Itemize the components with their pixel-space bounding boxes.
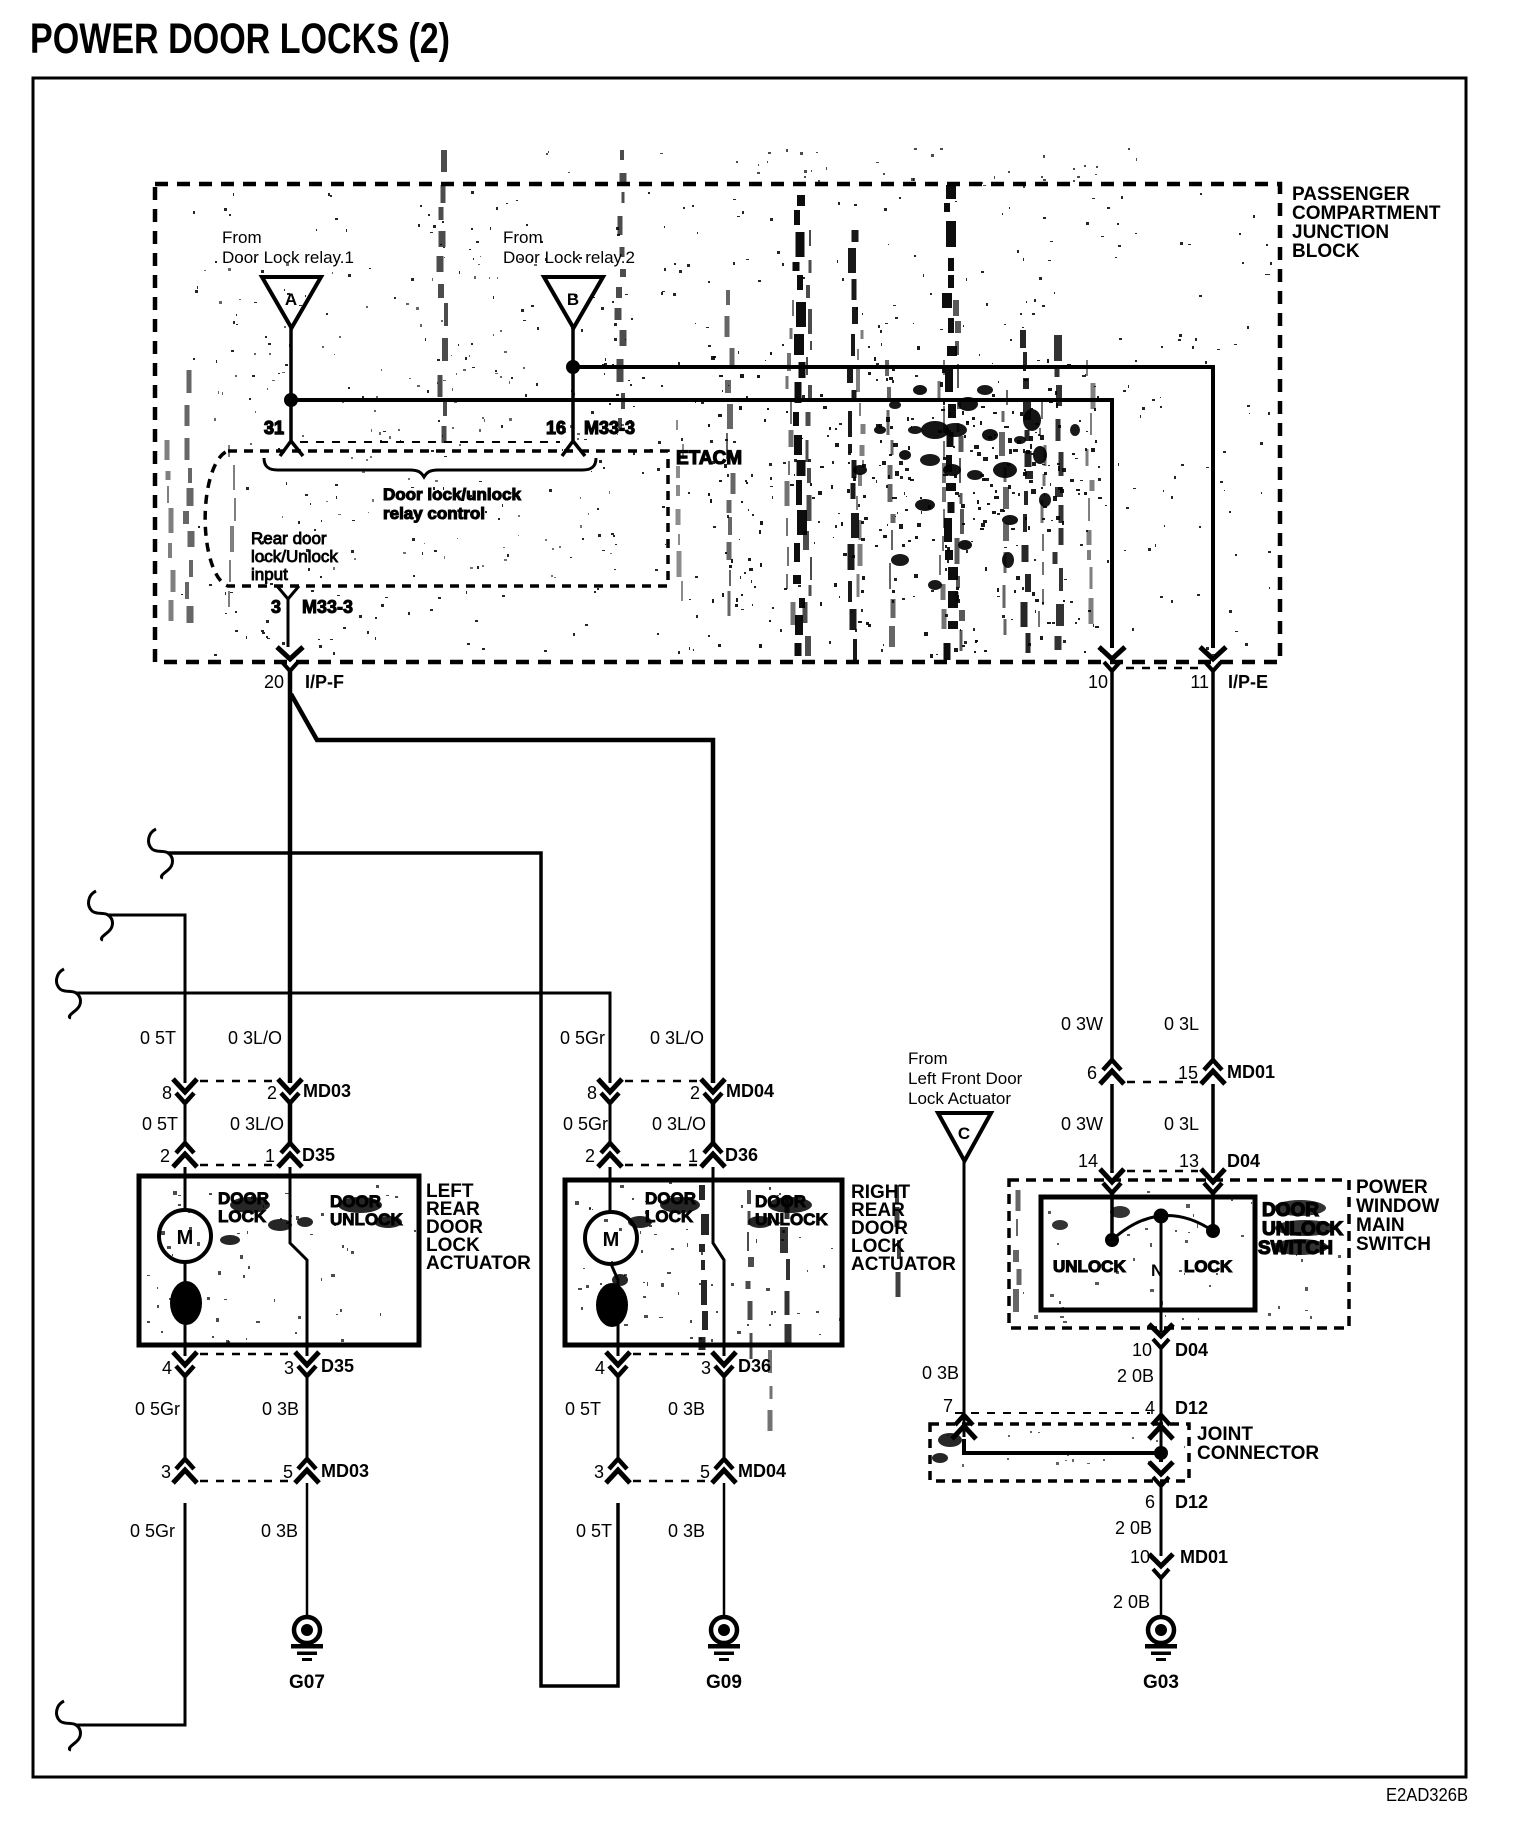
switch arm arc: [1112, 1215, 1213, 1240]
svg-text:MAIN: MAIN: [1356, 1215, 1405, 1236]
wire D35 pin4 to MD03 pin3: [184, 1376, 187, 1459]
wire D36 pin2 into motor: [609, 1167, 612, 1212]
chevron connector MD03 pin 2: [267, 1079, 351, 1103]
svg-text:2: 2: [267, 1083, 277, 1103]
svg-text:LOCK: LOCK: [1184, 1257, 1233, 1276]
ground G09: [706, 1617, 742, 1693]
svg-text:3: 3: [271, 597, 281, 617]
svg-text:ACTUATOR: ACTUATOR: [851, 1254, 956, 1275]
svg-text:10: 10: [1130, 1547, 1150, 1567]
svg-text:0 3L: 0 3L: [1164, 1114, 1199, 1134]
svg-text:From: From: [503, 228, 543, 247]
svg-text:BLOCK: BLOCK: [1292, 241, 1360, 262]
label POWER WINDOW MAIN SWITCH: [1356, 1177, 1439, 1255]
svg-text:Door lock/unlock: Door lock/unlock: [383, 485, 521, 504]
dashed tie MD03 top row: [200, 1080, 275, 1083]
junction dot on wire A: [284, 393, 298, 407]
svg-text:4: 4: [162, 1358, 172, 1378]
wire MD04 pin5 to ground G09: [723, 1483, 726, 1617]
wire label 0 3B left lower: [262, 1399, 299, 1419]
svg-text:6: 6: [1087, 1063, 1097, 1083]
svg-text:MD01: MD01: [1227, 1062, 1275, 1082]
connector triangle B: [544, 277, 603, 328]
svg-text:15: 15: [1178, 1063, 1198, 1083]
label DOOR LOCK inside left actuator: [218, 1189, 269, 1226]
wire D36 pin4 to MD04 pin3: [617, 1376, 620, 1459]
svg-text:0 3B: 0 3B: [668, 1521, 705, 1541]
svg-text:C: C: [958, 1124, 970, 1143]
wire D04 pin10 to D12 pin4: [1160, 1348, 1163, 1448]
wire I/P-E pin11 down to MD01 pin 15: [1211, 671, 1215, 1060]
svg-text:3: 3: [594, 1462, 604, 1482]
svg-text:2: 2: [690, 1083, 700, 1103]
chevron connector D04 pin 10: [1132, 1324, 1208, 1360]
label From Door Lock relay.1: [222, 228, 354, 267]
svg-text:0 3B: 0 3B: [261, 1521, 298, 1541]
junction dot on wire B: [566, 360, 580, 374]
svg-text:0 3W: 0 3W: [1061, 1014, 1103, 1034]
wire label 0 3L/O right top: [650, 1028, 704, 1048]
svg-text:I/P-F: I/P-F: [305, 672, 344, 692]
wire D35 pin2 into motor: [184, 1167, 187, 1210]
solenoid blob left actuator: [170, 1281, 202, 1325]
label DOOR UNLOCK inside left actuator: [330, 1192, 403, 1229]
switch pivot dot: [1154, 1209, 1169, 1224]
wire from B junction to I/P-E pin 11: [573, 367, 1213, 648]
svg-text:8: 8: [162, 1083, 172, 1103]
svg-text:MD03: MD03: [321, 1461, 369, 1481]
wire D36 pin3 to MD04 pin5: [723, 1376, 726, 1459]
wire D04 pin14 into switch: [1110, 1193, 1114, 1238]
svg-text:lock/Unlock: lock/Unlock: [251, 547, 338, 566]
chevron connector MD04 pin 8: [587, 1079, 622, 1103]
wire label 0 3L/O left mid: [230, 1114, 284, 1134]
fork connector out of ETACM pin 3 M33-3: [271, 586, 353, 647]
scan noise speckle layer: [147, 148, 1341, 1467]
svg-text:B: B: [567, 290, 579, 309]
wire label 0 3L/O left top: [228, 1028, 282, 1048]
dashed tie D35 top row: [200, 1164, 275, 1167]
wire label 0 3L mid: [1164, 1114, 1199, 1134]
chevron connector 11 I/P-E at block border: [1190, 647, 1268, 692]
svg-text:D36: D36: [725, 1145, 758, 1165]
svg-text:31: 31: [264, 418, 284, 438]
svg-text:I/P-E: I/P-E: [1228, 672, 1268, 692]
label From Door Lock relay.2: [503, 228, 635, 267]
squiggle continuation S1: [149, 829, 173, 878]
label Door lock/unlock relay control: [383, 485, 521, 523]
junction block PASSENGER COMPARTMENT dashed box: [155, 184, 1280, 662]
svg-text:COMPARTMENT: COMPARTMENT: [1292, 203, 1441, 224]
svg-text:20: 20: [264, 672, 284, 692]
chevron connector MD01 pin 15: [1178, 1060, 1275, 1084]
label RIGHT REAR DOOR LOCK ACTUATOR: [851, 1182, 956, 1275]
svg-text:M33-3: M33-3: [302, 597, 353, 617]
chevron connector D04 pin 14: [1078, 1151, 1124, 1193]
chevron connector D35 pin 1: [265, 1143, 335, 1167]
switch contact dot unlock: [1105, 1233, 1119, 1247]
wire MD01 pin10 to ground G03: [1160, 1578, 1163, 1617]
svg-text:SWITCH: SWITCH: [1356, 1234, 1431, 1255]
wire MD03 pin8 to D35 pin2: [184, 1103, 187, 1143]
wire MD01 pin15 to D04 pin13: [1211, 1084, 1215, 1173]
connector triangle C: [938, 1113, 991, 1161]
svg-text:11: 11: [1190, 672, 1209, 692]
wire from S1 to MD04 pin 3 via bottom U-turn: [168, 853, 618, 1686]
svg-text:D12: D12: [1175, 1492, 1208, 1512]
wire MD04 pin8 to D36 pin2: [609, 1103, 612, 1143]
wire D36 pin1 through actuator to pin3: [713, 1167, 724, 1356]
wire motor to D35 pin4: [184, 1262, 187, 1356]
chevron connector MD03 pin 8: [162, 1079, 197, 1103]
svg-text:0 3L/O: 0 3L/O: [228, 1028, 282, 1048]
dashed tie MD04 top row: [625, 1080, 698, 1083]
left rear door lock actuator box: [139, 1176, 419, 1345]
wire label 0 5Gr right mid: [563, 1114, 608, 1134]
brace door lock relay control: [264, 458, 596, 477]
wire branch diagonal I/P-F to MD04 pin 2: [291, 694, 713, 1083]
wire from S3 to MD04 pin 8: [76, 993, 610, 1083]
svg-text:3: 3: [284, 1358, 294, 1378]
fork connector ETACM pin 16 M33-3: [546, 418, 635, 456]
chevron connector MD04 pin 3: [594, 1459, 630, 1483]
dashed tie D04 row: [1127, 1170, 1198, 1173]
door unlock switch solid box: [1041, 1197, 1255, 1310]
svg-text:3: 3: [701, 1358, 711, 1378]
svg-text:From: From: [222, 228, 262, 247]
wire D04 pin13 into switch: [1211, 1193, 1215, 1230]
wire MD03 pin2 to D35 pin1: [288, 1103, 293, 1143]
wire label 2 0B mid: [1115, 1518, 1152, 1538]
chevron connector MD01 pin 6: [1087, 1060, 1124, 1084]
wire MD03 pin5 to ground G07: [306, 1483, 309, 1617]
chevron connector D04 pin 13: [1179, 1151, 1260, 1193]
wire label 0 5T bottom right: [576, 1521, 612, 1541]
wire label 0 3B bottom: [261, 1521, 298, 1541]
svg-text:2 0B: 2 0B: [1115, 1518, 1152, 1538]
chevron connector joint pin 4 D12: [1149, 1415, 1173, 1439]
ground G03: [1143, 1617, 1179, 1693]
wire label 0 3L/O right mid: [652, 1114, 706, 1134]
svg-text:D35: D35: [302, 1145, 335, 1165]
label 4 D12: [1145, 1398, 1208, 1418]
svg-text:A: A: [285, 290, 297, 309]
svg-text:UNLOCK: UNLOCK: [1053, 1257, 1126, 1276]
label DOOR UNLOCK SWITCH: [1258, 1200, 1344, 1259]
svg-text:Lock Actuator: Lock Actuator: [908, 1089, 1011, 1108]
label From Left Front Door Lock Actuator: [908, 1049, 1023, 1108]
svg-text:8: 8: [587, 1083, 597, 1103]
wire label 0 5T right lower: [565, 1399, 601, 1419]
chevron connector D36 pin 1: [688, 1143, 758, 1167]
svg-text:0 5Gr: 0 5Gr: [130, 1521, 175, 1541]
wire MD01 pin6 to D04 pin14: [1110, 1084, 1114, 1173]
svg-text:0 3B: 0 3B: [668, 1399, 705, 1419]
switch common wire down: [1160, 1216, 1163, 1332]
wire from C down to joint connector pin 7: [963, 1161, 966, 1437]
svg-text:6: 6: [1145, 1492, 1155, 1512]
svg-text:G03: G03: [1143, 1672, 1179, 1693]
label DOOR LOCK inside right actuator: [645, 1189, 696, 1226]
wire MD04 pin2 to D36 pin1: [711, 1103, 716, 1143]
label PASSENGER COMPARTMENT JUNCTION BLOCK: [1292, 184, 1441, 262]
power window main switch dashed box: [1009, 1180, 1349, 1328]
svg-text:0 3L/O: 0 3L/O: [652, 1114, 706, 1134]
svg-text:D04: D04: [1175, 1340, 1208, 1360]
svg-text:0 3L/O: 0 3L/O: [650, 1028, 704, 1048]
wire D35 pin3 to MD03 pin5: [306, 1376, 309, 1459]
svg-text:2 0B: 2 0B: [1113, 1592, 1150, 1612]
label JOINT CONNECTOR: [1197, 1424, 1319, 1464]
dashed tie MD01 row: [1127, 1081, 1198, 1084]
wire label 0 5Gr bottom: [130, 1521, 175, 1541]
wire I/P-F vertical down to MD03 pin 2: [288, 671, 293, 1083]
svg-text:M33-3: M33-3: [584, 418, 635, 438]
wire from S2 to MD03 pin 8: [108, 915, 185, 1083]
svg-text:M: M: [177, 1227, 194, 1249]
svg-text:7: 7: [943, 1396, 953, 1416]
svg-text:M: M: [603, 1229, 620, 1251]
svg-text:N: N: [1151, 1261, 1163, 1280]
svg-text:MD04: MD04: [738, 1461, 786, 1481]
dashed tie D36 bottom row: [633, 1353, 709, 1356]
label 7 joint connector: [943, 1396, 953, 1416]
ground G07: [289, 1617, 325, 1693]
svg-text:PASSENGER: PASSENGER: [1292, 184, 1410, 205]
fork connector ETACM pin 31: [264, 418, 303, 456]
svg-text:0 5T: 0 5T: [142, 1114, 178, 1134]
wire label 0 3W mid: [1061, 1114, 1103, 1134]
svg-text:0 3L/O: 0 3L/O: [230, 1114, 284, 1134]
squiggle continuation S3: [57, 969, 81, 1018]
chevron connector MD03 pin 3: [161, 1459, 197, 1483]
wire I/P-E pin10 down to MD01 pin 6: [1110, 671, 1114, 1060]
svg-text:14: 14: [1078, 1151, 1098, 1171]
svg-text:ETACM: ETACM: [676, 448, 742, 469]
dashed tie between 10 and 11 connectors: [1126, 667, 1198, 670]
svg-text:MD01: MD01: [1180, 1547, 1228, 1567]
svg-text:JOINT: JOINT: [1197, 1424, 1253, 1445]
svg-text:0 3B: 0 3B: [922, 1363, 959, 1383]
wire motor to D36 pin4: [611, 1264, 618, 1356]
svg-text:input: input: [251, 565, 288, 584]
svg-text:1: 1: [688, 1146, 698, 1166]
svg-text:G07: G07: [289, 1672, 325, 1693]
svg-text:0 5T: 0 5T: [565, 1399, 601, 1419]
chevron connector MD04 pin 5: [700, 1459, 786, 1483]
joint connector extra dashed top line: [955, 1412, 1150, 1414]
label Rear door lock/Unlock input: [251, 529, 338, 584]
svg-text:ACTUATOR: ACTUATOR: [426, 1253, 531, 1274]
wire label 0 3B from C: [922, 1363, 959, 1383]
wire from A junction to I/P-E pin 10: [291, 400, 1112, 648]
svg-text:POWER: POWER: [1356, 1177, 1428, 1198]
chevron connector D36 pin 2: [585, 1143, 622, 1167]
motor M right actuator: [585, 1212, 637, 1264]
label E2AD326B: [1386, 1785, 1468, 1805]
label LEFT REAR DOOR LOCK ACTUATOR: [426, 1181, 531, 1274]
chevron connector D35 pin 2: [160, 1143, 197, 1167]
ETACM dashed box with rounded left cap: [205, 451, 668, 586]
svg-text:10: 10: [1088, 672, 1108, 692]
wire label 0 3W top: [1061, 1014, 1103, 1034]
dashed tie MD03 bottom row: [200, 1480, 292, 1483]
wire label 0 5Gr left lower: [135, 1399, 180, 1419]
svg-text:13: 13: [1179, 1151, 1199, 1171]
chevron connector joint exit 6 D12: [1145, 1462, 1208, 1512]
label N inside switch: [1151, 1261, 1163, 1280]
svg-text:4: 4: [595, 1358, 605, 1378]
label ETACM: [676, 448, 742, 469]
svg-text:CONNECTOR: CONNECTOR: [1197, 1443, 1319, 1464]
label UNLOCK inside switch: [1053, 1257, 1126, 1276]
wire label 2 0B upper: [1117, 1366, 1154, 1386]
svg-text:2: 2: [585, 1146, 595, 1166]
label LOCK inside switch: [1184, 1257, 1233, 1276]
chevron connector D36 pin 3: [701, 1352, 771, 1378]
switch contact dot lock: [1206, 1224, 1220, 1238]
svg-text:16: 16: [546, 418, 566, 438]
svg-text:relay control: relay control: [383, 504, 485, 523]
dashed tie D35 bottom row: [200, 1353, 292, 1356]
svg-text:0 5T: 0 5T: [140, 1028, 176, 1048]
svg-text:0 3W: 0 3W: [1061, 1114, 1103, 1134]
wire label 0 5Gr right top: [560, 1028, 605, 1048]
squiggle continuation S4: [57, 1701, 81, 1750]
svg-text:2 0B: 2 0B: [1117, 1366, 1154, 1386]
wire label 0 3B right lower: [668, 1399, 705, 1419]
chevron connector 10 at block border: [1088, 647, 1125, 692]
wire label 0 5T left top: [140, 1028, 176, 1048]
wire from S4 to MD03 pin 3: [76, 1503, 185, 1725]
chevron connector D35 pin 4: [162, 1352, 197, 1378]
svg-text:From: From: [908, 1049, 948, 1068]
chevron connector MD01 pin 10: [1130, 1547, 1228, 1578]
wire D12 pin6 to MD01 pin10: [1160, 1486, 1163, 1556]
label DOOR UNLOCK inside right actuator: [755, 1192, 828, 1229]
svg-text:0 5T: 0 5T: [576, 1521, 612, 1541]
svg-text:Rear door: Rear door: [251, 529, 327, 548]
solenoid blob right actuator: [596, 1283, 628, 1327]
svg-text:WINDOW: WINDOW: [1356, 1196, 1439, 1217]
chevron connector 20 I/P-F at block border: [264, 647, 344, 692]
joint connector internal bus: [964, 1439, 1161, 1462]
wire from B down to ETACM fork: [571, 328, 575, 432]
dashed tie MD04 bottom row: [633, 1480, 709, 1483]
svg-text:D36: D36: [738, 1356, 771, 1376]
svg-text:MD04: MD04: [726, 1081, 774, 1101]
svg-text:E2AD326B: E2AD326B: [1386, 1785, 1468, 1805]
chevron connector joint pin 7: [952, 1415, 976, 1439]
svg-text:5: 5: [700, 1462, 710, 1482]
chevron connector MD04 pin 2: [690, 1079, 774, 1103]
svg-text:0 3L: 0 3L: [1164, 1014, 1199, 1034]
svg-text:10: 10: [1132, 1340, 1152, 1360]
svg-text:3: 3: [161, 1462, 171, 1482]
svg-text:0 5Gr: 0 5Gr: [560, 1028, 605, 1048]
wire label 0 3B bottom right: [668, 1521, 705, 1541]
svg-text:D35: D35: [321, 1356, 354, 1376]
wire label 2 0B lower: [1113, 1592, 1150, 1612]
wire label 0 3L top: [1164, 1014, 1199, 1034]
svg-text:Left Front Door: Left Front Door: [908, 1069, 1023, 1088]
connector triangle A: [262, 277, 321, 328]
svg-text:D12: D12: [1175, 1398, 1208, 1418]
svg-text:MD03: MD03: [303, 1081, 351, 1101]
svg-text:D04: D04: [1227, 1151, 1260, 1171]
joint connector bus junction dot: [1154, 1446, 1168, 1460]
svg-text:2: 2: [160, 1146, 170, 1166]
svg-text:0 5Gr: 0 5Gr: [135, 1399, 180, 1419]
svg-text:1: 1: [265, 1146, 275, 1166]
motor M left actuator: [159, 1210, 211, 1262]
chevron connector MD03 pin 5: [283, 1459, 369, 1483]
wire from A down to ETACM fork: [289, 328, 293, 432]
squiggle continuation S2: [89, 891, 113, 940]
thin dashed tie between ETACM forks: [300, 441, 560, 443]
wire label 0 5T left mid: [142, 1114, 178, 1134]
svg-text:5: 5: [283, 1462, 293, 1482]
svg-text:JUNCTION: JUNCTION: [1292, 222, 1389, 243]
right rear door lock actuator box: [565, 1180, 842, 1345]
chevron connector D35 pin 3: [284, 1352, 354, 1378]
svg-text:4: 4: [1145, 1398, 1155, 1418]
title POWER DOOR LOCKS (2): [30, 15, 450, 63]
dashed tie D36 top row: [625, 1164, 698, 1167]
chevron connector D36 pin 4: [595, 1352, 630, 1378]
wire D35 pin1 through actuator to pin3: [290, 1167, 307, 1356]
svg-text:Door Lock relay.2: Door Lock relay.2: [503, 248, 635, 267]
joint connector dashed box: [930, 1424, 1189, 1481]
svg-text:0 5Gr: 0 5Gr: [563, 1114, 608, 1134]
svg-text:0 3B: 0 3B: [262, 1399, 299, 1419]
svg-text:G09: G09: [706, 1672, 742, 1693]
svg-text:POWER DOOR LOCKS (2): POWER DOOR LOCKS (2): [30, 15, 450, 63]
